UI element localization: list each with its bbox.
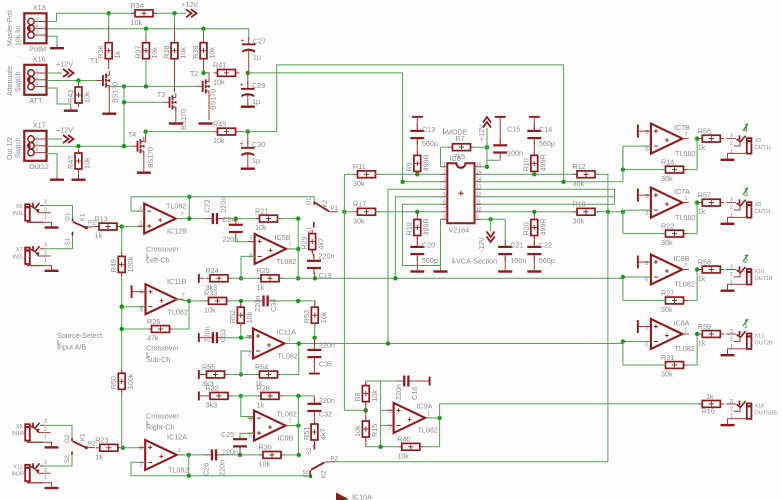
svg-text:47k: 47k xyxy=(147,334,159,343)
svg-text:10k: 10k xyxy=(370,390,379,402)
junction xyxy=(187,216,191,220)
wire pin10 row xyxy=(481,211,577,213)
wire IN2L to switch S1 contact xyxy=(45,236,73,249)
svg-text:10k: 10k xyxy=(397,451,409,460)
svg-text:2: 2 xyxy=(646,211,649,217)
junction xyxy=(187,453,191,457)
wire R40 feedback to out xyxy=(423,418,440,447)
junction xyxy=(296,394,300,398)
resistor R40 10k xyxy=(397,435,424,461)
junction xyxy=(342,210,346,214)
svg-text:2: 2 xyxy=(730,141,733,147)
svg-text:IC8B: IC8B xyxy=(674,254,690,263)
svg-text:K2: K2 xyxy=(322,199,329,207)
svg-text:OUT2L: OUT2L xyxy=(755,209,772,215)
svg-text:X7: X7 xyxy=(16,247,23,253)
junction xyxy=(144,84,148,88)
jack X10 OUT1R xyxy=(721,255,773,292)
svg-text:10k: 10k xyxy=(150,47,159,59)
wire to IC9A -in xyxy=(381,424,394,426)
svg-text:Right-Ch: Right-Ch xyxy=(146,423,174,432)
wire C33 to IC11A +in xyxy=(224,337,253,339)
svg-text:499R: 499R xyxy=(539,218,548,235)
svg-text:2: 2 xyxy=(730,205,733,211)
svg-text:6: 6 xyxy=(646,147,649,153)
switch K1 contact O1 xyxy=(72,219,74,222)
capacitor C15 open top xyxy=(495,116,506,118)
op-amp IC8B TL082 xyxy=(644,254,694,289)
junction xyxy=(107,11,111,15)
wire pin11 row xyxy=(481,203,614,205)
svg-text:R15: R15 xyxy=(370,424,379,437)
resistor R11 30k xyxy=(353,162,380,188)
svg-text:C33: C33 xyxy=(219,329,228,342)
lead R52 from node xyxy=(240,301,242,307)
svg-text:2: 2 xyxy=(389,426,392,432)
wire C25 to IC9B +in xyxy=(240,433,254,437)
resistor R24 3k3 xyxy=(206,266,233,292)
+12V supply arrow X17 xyxy=(63,135,74,143)
svg-text:220n: 220n xyxy=(319,251,335,260)
svg-text:IC12A: IC12A xyxy=(167,433,187,442)
resistor R13 1k xyxy=(95,214,122,240)
wire IN2R to switch xyxy=(45,455,73,466)
svg-text:IC10A: IC10A xyxy=(352,493,372,500)
+12V supply arrow X16 xyxy=(63,69,74,77)
svg-text:10k: 10k xyxy=(245,311,254,323)
svg-text:30k: 30k xyxy=(353,216,365,225)
svg-text:R13: R13 xyxy=(95,214,108,223)
svg-text:3: 3 xyxy=(44,243,47,249)
svg-text:30k: 30k xyxy=(661,305,673,314)
svg-text:10k: 10k xyxy=(179,47,188,59)
jack X16 OUTSUB xyxy=(721,399,778,426)
svg-text:2: 2 xyxy=(36,140,39,145)
svg-text:3: 3 xyxy=(44,460,47,466)
resistor R7 7k5 xyxy=(449,134,475,161)
svg-text:9: 9 xyxy=(476,215,479,221)
svg-text:R45: R45 xyxy=(213,119,226,128)
wire R17 to IC6 pin7 row xyxy=(375,211,441,213)
wire to -in IC8B xyxy=(623,276,651,278)
junction xyxy=(296,423,300,427)
svg-text:10k: 10k xyxy=(83,157,92,169)
resistor R27 30k xyxy=(661,288,688,314)
svg-text:R25: R25 xyxy=(257,266,270,275)
junction xyxy=(606,210,610,214)
resistor R47 10k xyxy=(66,149,92,173)
svg-text:R17: R17 xyxy=(353,200,366,209)
svg-text:3: 3 xyxy=(443,177,446,183)
svg-text:R12: R12 xyxy=(573,162,586,171)
svg-text:R33: R33 xyxy=(204,289,217,298)
svg-text:X12: X12 xyxy=(755,333,765,339)
svg-text:-12V: -12V xyxy=(479,237,486,252)
svg-text:C25: C25 xyxy=(221,430,234,439)
lead C24 from node xyxy=(235,219,237,222)
junction xyxy=(122,100,126,104)
svg-text:1k: 1k xyxy=(113,51,122,59)
svg-text:6: 6 xyxy=(645,278,648,284)
svg-text:Crossover: Crossover xyxy=(146,411,179,420)
svg-text:2: 2 xyxy=(645,342,648,348)
junction xyxy=(296,299,300,303)
resistor R53 10k xyxy=(302,303,328,327)
svg-text:4: 4 xyxy=(443,185,446,191)
svg-text:2: 2 xyxy=(44,468,47,474)
svg-text:2: 2 xyxy=(44,207,47,213)
op-amp IC12A TL082 xyxy=(139,433,189,475)
wire R7 right to +12V net xyxy=(474,146,487,148)
svg-text:IC5B: IC5B xyxy=(275,233,291,242)
wire IN1R to switch contact O2 xyxy=(45,425,73,438)
svg-text:R39: R39 xyxy=(191,46,200,59)
wire R7 left xyxy=(441,146,450,148)
junction xyxy=(234,216,238,220)
wire R34 to +12V arrow xyxy=(153,12,186,14)
svg-text:X10: X10 xyxy=(755,269,765,275)
svg-text:R26: R26 xyxy=(147,317,160,326)
junction xyxy=(621,210,625,214)
svg-text:IC12B: IC12B xyxy=(167,226,187,235)
svg-text:C27: C27 xyxy=(253,37,266,46)
resistor R54 1k xyxy=(255,362,282,388)
capacitor C13 open top xyxy=(412,116,423,118)
wire X13 pin2 rail xyxy=(47,28,249,30)
svg-text:5: 5 xyxy=(249,434,252,440)
capacitor C25 220n xyxy=(233,433,247,453)
resistor R22 30k xyxy=(661,221,688,247)
wire IC5B -in down xyxy=(241,256,255,278)
resistor R57 1k xyxy=(698,190,725,216)
svg-text:C14: C14 xyxy=(539,125,552,134)
junction xyxy=(378,445,382,449)
open end +input IC7A xyxy=(638,194,651,196)
resistor R31 30k xyxy=(661,353,688,379)
resistor R28 1k xyxy=(257,384,284,410)
svg-text:C23: C23 xyxy=(203,199,212,212)
svg-text:TL082: TL082 xyxy=(277,409,297,418)
svg-text:7: 7 xyxy=(182,293,185,299)
junction xyxy=(485,145,489,149)
svg-text:1: 1 xyxy=(427,412,430,418)
wire rail2 to R37 xyxy=(145,29,147,34)
svg-text:IN2R: IN2R xyxy=(12,472,24,478)
svg-text:2: 2 xyxy=(730,336,733,342)
resistor R52 10k xyxy=(228,303,254,327)
svg-text:5: 5 xyxy=(443,192,446,198)
polarized capacitor C30 1u xyxy=(240,140,266,165)
wire pin6 vertical down xyxy=(403,204,441,265)
open end R55 xyxy=(198,370,200,379)
svg-text:7: 7 xyxy=(685,132,688,138)
lead R8 top xyxy=(365,381,367,386)
svg-text:16: 16 xyxy=(476,162,482,168)
ground C29 xyxy=(241,104,255,108)
junction xyxy=(201,71,205,75)
ground C21 xyxy=(498,269,512,273)
svg-text:6: 6 xyxy=(443,200,446,206)
wire pin4 vertical to sub out row xyxy=(387,189,389,343)
ground C30 xyxy=(241,166,255,170)
svg-text:7: 7 xyxy=(288,419,291,425)
ground C22 xyxy=(527,269,541,273)
junction xyxy=(121,446,125,450)
wire X13 pin1 to +12V rail xyxy=(47,13,136,21)
svg-text:P1: P1 xyxy=(331,205,339,212)
svg-text:1k: 1k xyxy=(257,401,265,410)
ground T4 xyxy=(137,170,151,174)
svg-text:R32: R32 xyxy=(206,384,219,393)
svg-text:VCA-Section: VCA-Section xyxy=(456,257,497,266)
wire to C21 xyxy=(504,219,506,244)
wire R26 left xyxy=(122,328,148,330)
lead R37 top xyxy=(145,34,147,39)
junction xyxy=(187,299,191,303)
junction xyxy=(187,474,191,478)
junction xyxy=(239,336,243,340)
wire IC6 pin5 row xyxy=(395,196,440,198)
resistor R23 1k xyxy=(95,436,122,462)
lead C13 to R9 xyxy=(416,141,418,156)
wire IC9B out xyxy=(288,425,300,427)
wire feedback left IC7B xyxy=(623,169,666,171)
resistor R21 10k xyxy=(255,206,282,232)
resistor R30 10k xyxy=(259,443,286,469)
wire T1 source to T2 gate xyxy=(109,85,196,86)
lead R20 to C22 xyxy=(533,236,535,245)
wire R23 to IC12A +in xyxy=(122,447,145,449)
svg-text:R23: R23 xyxy=(95,436,108,445)
wire pivot to R17 xyxy=(344,211,354,213)
svg-text:R31: R31 xyxy=(661,353,674,362)
lead R39 top xyxy=(203,34,205,39)
resistor R9 499R xyxy=(405,151,431,175)
svg-text:5: 5 xyxy=(140,289,143,295)
open end C16 xyxy=(429,377,431,386)
IC U-IC6 V2164 quad VCA xyxy=(441,154,482,235)
svg-text:R43: R43 xyxy=(66,90,75,103)
jack X9 IN1R xyxy=(12,419,59,448)
svg-text:3: 3 xyxy=(36,81,39,86)
junction xyxy=(485,165,489,169)
resistor R49 100k xyxy=(109,252,135,276)
op-amp IC7B TL082 xyxy=(644,123,695,158)
svg-text:5: 5 xyxy=(250,236,253,242)
svg-text:S2: S2 xyxy=(307,447,313,455)
wire R21 to IC5B out node and R25 row xyxy=(277,219,298,279)
wire C23 to R21 xyxy=(224,218,260,220)
wire R26 feedback to out xyxy=(173,301,189,329)
svg-text:+: + xyxy=(240,82,244,89)
lead C21 to ground xyxy=(504,257,506,269)
svg-text:BS170: BS170 xyxy=(181,109,188,130)
svg-text:X16: X16 xyxy=(755,403,765,409)
resistor R45 10k xyxy=(213,119,240,145)
lead C14 to R10 xyxy=(533,141,535,156)
wire feedback left IC7A xyxy=(623,233,666,235)
svg-text:R7: R7 xyxy=(456,134,465,143)
capacitor C32 220n xyxy=(307,396,335,418)
resistor R8 10k xyxy=(353,382,379,406)
lead K2 pivot xyxy=(330,211,339,213)
svg-text:220n: 220n xyxy=(253,296,262,312)
open end +input IC7B xyxy=(638,130,651,132)
svg-text:C15: C15 xyxy=(507,124,520,133)
svg-text:10k: 10k xyxy=(353,425,362,437)
lead R41 node to C29 xyxy=(247,73,249,85)
svg-text:X6: X6 xyxy=(16,204,23,210)
svg-text:2: 2 xyxy=(730,406,733,412)
svg-text:TL082: TL082 xyxy=(276,257,296,266)
wire R18 to IC7A -in node xyxy=(595,211,623,213)
junction xyxy=(313,276,317,280)
wire attenuate vertical xyxy=(123,86,125,146)
open end +input IC8B xyxy=(638,261,651,263)
svg-text:1: 1 xyxy=(36,134,39,139)
svg-text:O1: O1 xyxy=(307,197,313,206)
svg-text:IC7A: IC7A xyxy=(674,187,690,196)
junction xyxy=(415,172,419,176)
svg-text:220n: 220n xyxy=(203,326,212,342)
svg-text:2: 2 xyxy=(140,463,143,469)
wire C34 to R53 xyxy=(272,300,316,302)
svg-text:3: 3 xyxy=(36,30,39,35)
svg-text:7: 7 xyxy=(684,263,687,269)
junction xyxy=(297,341,301,345)
svg-text:C19: C19 xyxy=(319,271,332,280)
svg-text:4k7: 4k7 xyxy=(319,428,328,440)
lead R24 left xyxy=(200,277,205,279)
svg-text:1k: 1k xyxy=(698,143,706,152)
wire feedback IC7B xyxy=(684,139,698,170)
polarized capacitor C27 chain lead xyxy=(248,29,250,41)
wire R28 to C32 node xyxy=(282,395,314,397)
resistor R37 10k xyxy=(133,39,159,63)
svg-text:TL082: TL082 xyxy=(278,351,298,360)
capacitor C24 220n xyxy=(222,215,243,244)
resistor R38 10k xyxy=(162,39,188,63)
svg-text:1: 1 xyxy=(44,215,47,221)
svg-text:IC8A: IC8A xyxy=(674,318,690,327)
jack X6 IN1L xyxy=(13,199,59,228)
junction xyxy=(621,167,625,171)
wire K2 pivot vertical to sub filter xyxy=(343,174,345,410)
wire K2 P2 row to right xyxy=(335,461,608,463)
jack X7 IN2L xyxy=(13,243,59,272)
wire IC11B out to R33 xyxy=(189,300,205,302)
lead R36 to T1 drain xyxy=(108,59,110,70)
svg-text:T3: T3 xyxy=(157,92,165,99)
lead C27 to R41 node xyxy=(248,57,250,73)
junction xyxy=(488,217,492,221)
op-amp IC12B TL082 xyxy=(138,202,187,236)
junction xyxy=(187,195,191,199)
wire feedback IC8B xyxy=(684,270,698,301)
resistor R41 10k xyxy=(213,61,240,87)
svg-text:R8: R8 xyxy=(353,392,362,401)
wire R30 to IC9B feedback xyxy=(284,454,299,456)
svg-text:1µ: 1µ xyxy=(253,53,261,62)
+12V supply arrow VCA xyxy=(483,117,491,128)
capacitor C34 220n xyxy=(253,295,278,312)
lead R10 to pin15 row xyxy=(533,171,535,174)
svg-text:100k: 100k xyxy=(126,256,135,272)
wire pin15 row xyxy=(481,173,577,175)
wire feedback IC8A xyxy=(684,334,698,365)
svg-text:C26: C26 xyxy=(202,463,211,476)
svg-text:C29: C29 xyxy=(252,81,265,90)
junction xyxy=(239,394,243,398)
svg-text:1: 1 xyxy=(684,328,687,334)
transistor T2 xyxy=(190,71,218,110)
svg-text:OUT2R: OUT2R xyxy=(755,340,773,346)
wire X13 pin3 to ground xyxy=(47,36,58,45)
svg-text:C22: C22 xyxy=(539,241,552,250)
wire IC12A feedback row to O2 xyxy=(189,455,311,476)
svg-text:C24: C24 xyxy=(222,215,235,224)
svg-text:R40: R40 xyxy=(397,435,410,444)
open end C33 xyxy=(198,333,200,342)
svg-text:220n: 220n xyxy=(319,396,335,405)
svg-text:IC9B: IC9B xyxy=(278,434,294,443)
capacitor C33 220n xyxy=(203,326,228,343)
junction xyxy=(144,129,148,133)
svg-text:1k: 1k xyxy=(698,207,706,216)
op-amp IC5B TL082 xyxy=(248,233,296,266)
svg-text:T1: T1 xyxy=(90,58,98,65)
svg-text:3k3: 3k3 xyxy=(206,401,218,410)
svg-text:2: 2 xyxy=(44,427,47,433)
svg-text:560p: 560p xyxy=(539,256,555,265)
wire feedback left IC8B xyxy=(623,300,666,302)
svg-text:OUT1R: OUT1R xyxy=(755,276,773,282)
lead R53 from node xyxy=(314,301,316,307)
svg-text:10k: 10k xyxy=(319,311,328,323)
svg-text:R51: R51 xyxy=(302,427,311,440)
svg-text:10k lin: 10k lin xyxy=(16,26,23,46)
svg-text:Crossover: Crossover xyxy=(146,244,179,253)
resistor R20 499R xyxy=(522,216,548,240)
lead C35 bottom xyxy=(313,360,315,373)
junction xyxy=(695,200,699,204)
wire to pin1 xyxy=(440,147,442,167)
svg-text:30k: 30k xyxy=(573,179,585,188)
svg-text:3: 3 xyxy=(248,335,251,341)
lead C25 bottom xyxy=(239,449,241,455)
junction xyxy=(172,11,176,15)
lead C33 left xyxy=(200,337,207,339)
svg-text:K1: K1 xyxy=(80,213,87,221)
lead C35 top xyxy=(313,338,315,348)
svg-text:R52: R52 xyxy=(228,310,237,323)
svg-text:220n: 220n xyxy=(319,340,335,349)
svg-text:IC7B: IC7B xyxy=(674,123,690,132)
wire long right vertical to P2 row xyxy=(607,212,609,462)
svg-text:2: 2 xyxy=(730,272,733,278)
wire IC11A -in down xyxy=(241,351,253,375)
svg-text:13: 13 xyxy=(476,185,482,191)
wire IC12A out to C26 xyxy=(179,454,206,456)
wire IC12B out vertical xyxy=(188,197,190,219)
capacitor C14 open top xyxy=(529,116,540,118)
junction xyxy=(238,453,242,457)
junction xyxy=(120,327,124,331)
lead C14 top xyxy=(533,118,535,131)
wire R37 to T2 gate row xyxy=(145,59,147,87)
svg-text:Switch: Switch xyxy=(16,71,23,92)
svg-text:1: 1 xyxy=(685,196,688,202)
